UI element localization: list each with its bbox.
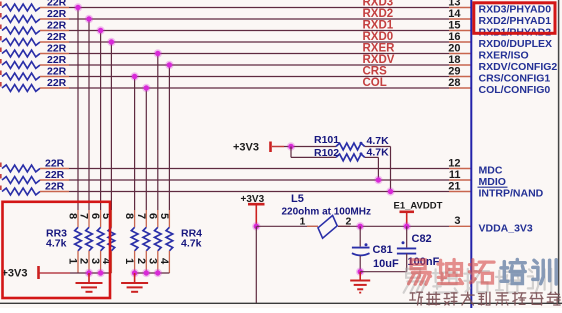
svg-text:22R: 22R	[45, 158, 65, 170]
svg-text:29: 29	[448, 65, 460, 77]
svg-text:2: 2	[135, 258, 147, 264]
svg-text:7: 7	[135, 213, 147, 219]
svg-text:VDDA_3V3: VDDA_3V3	[479, 222, 533, 234]
svg-text:5: 5	[158, 213, 170, 219]
svg-text:22R: 22R	[47, 77, 67, 89]
svg-text:22R: 22R	[47, 66, 67, 78]
svg-text:COL: COL	[363, 77, 387, 89]
svg-text:2: 2	[346, 216, 352, 228]
svg-text:2: 2	[78, 258, 90, 264]
svg-text:C82: C82	[412, 233, 432, 245]
svg-text:12: 12	[448, 157, 460, 169]
svg-text:4.7k: 4.7k	[181, 238, 202, 250]
svg-text:22R: 22R	[45, 181, 65, 193]
svg-text:15: 15	[448, 19, 460, 31]
svg-text:4.7k: 4.7k	[46, 238, 67, 250]
svg-text:4: 4	[158, 258, 170, 265]
svg-text:220ohm at 100MHz: 220ohm at 100MHz	[282, 207, 371, 218]
svg-text:RXD2: RXD2	[363, 8, 394, 20]
svg-text:RXER: RXER	[363, 42, 396, 54]
svg-text:22R: 22R	[47, 31, 67, 43]
svg-text:RXDV/CONFIG2: RXDV/CONFIG2	[479, 61, 558, 73]
svg-text:4.7K: 4.7K	[367, 135, 390, 147]
svg-text:1: 1	[300, 216, 306, 228]
svg-text:C81: C81	[373, 244, 393, 256]
svg-text:RXD0/DUPLEX: RXD0/DUPLEX	[479, 38, 553, 50]
svg-text:E1_AVDDT: E1_AVDDT	[394, 201, 443, 212]
svg-text:COL/CONFIG0: COL/CONFIG0	[479, 84, 551, 96]
svg-text:6: 6	[89, 213, 101, 219]
svg-text:28: 28	[448, 77, 460, 89]
svg-text:MDC: MDC	[479, 164, 503, 176]
svg-text:RXD1: RXD1	[363, 19, 394, 31]
svg-text:INTRP/NAND: INTRP/NAND	[479, 187, 544, 199]
svg-text:22R: 22R	[47, 20, 67, 32]
svg-text:MDIO: MDIO	[479, 176, 506, 188]
svg-text:10uF: 10uF	[373, 258, 399, 270]
svg-text:14: 14	[448, 8, 461, 20]
svg-text:22R: 22R	[47, 43, 67, 55]
svg-text:+3V3: +3V3	[2, 268, 28, 280]
svg-text:R101: R101	[314, 134, 339, 146]
svg-text:R102: R102	[314, 147, 339, 159]
svg-text:1: 1	[67, 258, 79, 264]
svg-text:RXD0: RXD0	[363, 31, 394, 43]
svg-text:16: 16	[448, 31, 460, 43]
svg-text:22R: 22R	[47, 8, 67, 20]
svg-text:7: 7	[78, 213, 90, 219]
svg-text:CRS: CRS	[363, 65, 388, 77]
svg-text:L5: L5	[291, 193, 304, 205]
svg-text:CRS/CONFIG1: CRS/CONFIG1	[479, 72, 551, 84]
svg-text:RXDV: RXDV	[363, 54, 395, 66]
svg-text:3: 3	[454, 215, 460, 227]
svg-text:3: 3	[146, 258, 158, 264]
svg-text:1: 1	[123, 258, 135, 264]
svg-text:22R: 22R	[45, 169, 65, 181]
svg-text:3: 3	[89, 258, 101, 264]
svg-text:18: 18	[448, 54, 460, 66]
svg-text:6: 6	[146, 213, 158, 219]
svg-text:11: 11	[449, 169, 461, 181]
svg-text:8: 8	[123, 213, 135, 219]
svg-text:RXD3/PHYAD0: RXD3/PHYAD0	[479, 3, 552, 15]
svg-text:RXER/ISO: RXER/ISO	[479, 49, 529, 61]
svg-text:4.7K: 4.7K	[367, 147, 390, 159]
svg-text:8: 8	[67, 213, 79, 219]
svg-text:22R: 22R	[47, 54, 67, 66]
svg-text:21: 21	[448, 180, 460, 192]
svg-text:20: 20	[448, 42, 460, 54]
svg-text:+3V3: +3V3	[233, 142, 259, 154]
svg-text:RXD2/PHYAD1: RXD2/PHYAD1	[479, 15, 552, 27]
